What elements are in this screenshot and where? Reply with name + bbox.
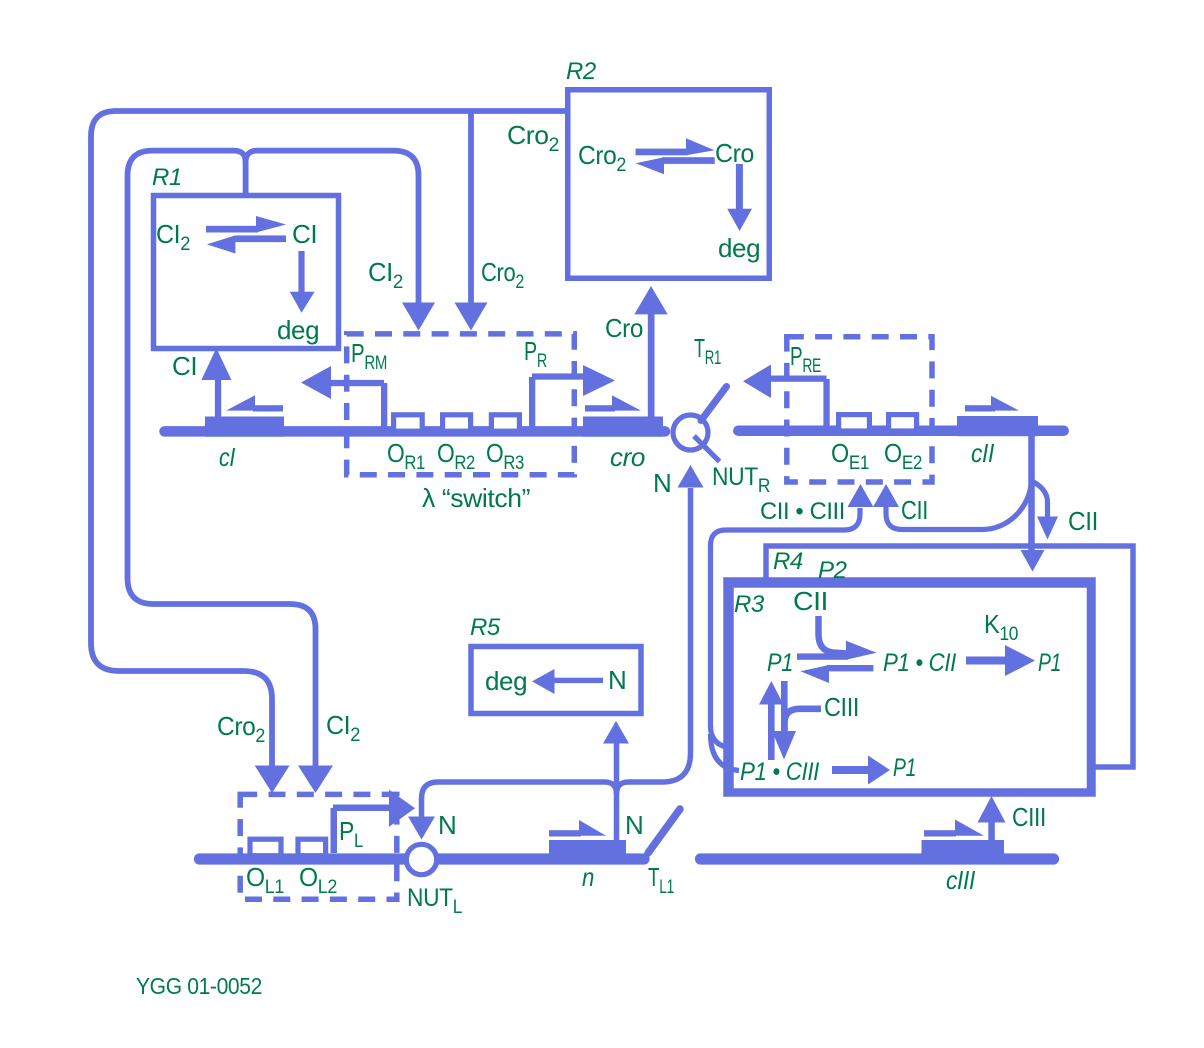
N transcript vertical from gene n up to R5 <box>614 743 620 847</box>
svg-text:NUTR: NUTR <box>712 463 770 497</box>
svg-text:Cro2: Cro2 <box>481 257 524 293</box>
svg-text:CIII: CIII <box>824 692 859 722</box>
svg-text:CI2: CI2 <box>326 710 360 746</box>
svg-text:Cro2: Cro2 <box>507 120 559 156</box>
transcription half-arrow on cI (leftward) <box>226 395 283 411</box>
box P2 <box>726 580 1093 794</box>
svg-text:OE2: OE2 <box>884 438 922 474</box>
wire CI2 right branch down to lambda switch box <box>246 151 419 305</box>
wire CII-CIII long path to OE1 up arrow <box>711 508 861 728</box>
box R3 <box>731 585 1090 791</box>
operator OL1 <box>250 839 281 856</box>
dashed box OL <box>240 794 397 899</box>
svg-text:P1: P1 <box>767 649 793 677</box>
svg-text:P1 • CII: P1 • CII <box>883 649 956 677</box>
svg-text:CI: CI <box>172 351 197 381</box>
svg-text:P1: P1 <box>893 754 916 782</box>
wire CII S-curve to OE2 up arrow <box>886 478 1032 530</box>
arrow K10 degradation <box>966 645 1035 676</box>
DNA line cII <box>738 425 1063 436</box>
svg-text:P1 • CIII: P1 • CIII <box>740 758 819 786</box>
wire CII output from gene cII <box>1028 436 1035 481</box>
svg-text:Cro: Cro <box>605 313 643 343</box>
wire CII input curve in R3 <box>819 616 848 654</box>
svg-text:deg: deg <box>485 666 527 696</box>
gene cro <box>583 417 663 437</box>
svg-text:CII: CII <box>1068 506 1098 536</box>
arrow N deg in R5 <box>532 669 603 694</box>
arrowhead Cro2 at lambda switch <box>455 303 488 331</box>
svg-text:PRE: PRE <box>790 341 821 377</box>
promoter arrow PL (bent, pointing right) <box>331 790 416 853</box>
svg-text:CII: CII <box>901 495 928 525</box>
arrow CI deg in R1 <box>290 251 315 313</box>
box R1 <box>154 196 339 349</box>
arrow CII onto P2 top <box>1028 481 1035 551</box>
arrow Cro from gene cro up to R2 <box>634 286 667 418</box>
svg-text:TR1: TR1 <box>694 333 721 369</box>
svg-text:PR: PR <box>524 336 547 372</box>
equilibrium arrows R3 vertical <box>759 681 796 760</box>
svg-text:PL: PL <box>339 816 363 852</box>
operator OR3 <box>491 415 519 431</box>
dashed box PRE <box>787 337 932 482</box>
svg-text:R4: R4 <box>773 548 803 575</box>
transcription half-arrow on cro (rightward) <box>585 395 641 411</box>
svg-text:N: N <box>653 468 671 498</box>
arrowhead CII at OE2 <box>873 484 899 507</box>
DNA line cI-cro <box>165 426 666 437</box>
terminator TR1 slash <box>701 387 727 421</box>
operator OR2 <box>443 415 471 431</box>
svg-text:OL2: OL2 <box>299 862 337 898</box>
NUT_L circle <box>406 844 436 874</box>
gene n <box>549 840 626 864</box>
arrow P1.CIII to P1 <box>832 756 890 785</box>
svg-text:R5: R5 <box>470 614 501 641</box>
wire Cro2 branch down to lambda switch box <box>468 111 474 305</box>
box R4 <box>766 546 1133 767</box>
operator OL2 <box>298 839 326 856</box>
wire CII-CIII branch arc into P2 box edge <box>711 726 729 748</box>
svg-text:deg: deg <box>718 233 760 263</box>
arrowhead Cro2 at OL box <box>255 766 290 794</box>
NUT_R circle <box>673 415 708 450</box>
box R2 <box>568 90 770 279</box>
svg-text:deg: deg <box>277 315 319 345</box>
svg-text:CII: CII <box>793 586 828 616</box>
operator OE2 <box>889 415 917 431</box>
operator OE1 <box>839 415 870 431</box>
svg-text:R1: R1 <box>152 164 182 191</box>
svg-text:CII • CIII: CII • CIII <box>760 498 845 525</box>
gene cII <box>957 416 1038 436</box>
promoter arrow PRE (bent, pointing left) <box>743 365 830 429</box>
arrow Cro deg in R2 <box>727 164 752 231</box>
svg-text:Cro2: Cro2 <box>217 711 265 747</box>
wire Cro2 feedback loop from R2 left edge down to OL dashed box <box>91 111 565 768</box>
svg-text:cIII: cIII <box>946 865 975 895</box>
svg-text:OR2: OR2 <box>437 438 475 474</box>
svg-text:OL1: OL1 <box>246 862 284 898</box>
NUT_R tail slash <box>694 436 720 462</box>
box R5 <box>471 647 641 714</box>
svg-text:TL1: TL1 <box>648 862 674 898</box>
wire CIII input curve in R3 <box>785 709 822 730</box>
arrowhead CI2 at lambda switch <box>402 303 435 331</box>
dashed box lambda switch <box>347 334 575 475</box>
transcription half-arrow on cII (rightward) <box>965 396 1019 412</box>
svg-text:OR1: OR1 <box>387 438 425 474</box>
svg-text:PRM: PRM <box>351 338 387 374</box>
arrow CIII from gene cIII up to R3 <box>978 796 1006 840</box>
svg-text:CI2: CI2 <box>368 257 403 293</box>
svg-text:N: N <box>625 810 643 840</box>
svg-text:OE1: OE1 <box>831 438 869 474</box>
DNA line OL-n <box>200 853 645 864</box>
terminator TL1 slash <box>648 809 680 853</box>
svg-text:n: n <box>582 862 594 892</box>
equilibrium arrows R2 <box>636 138 715 174</box>
operator OR1 <box>394 415 423 431</box>
gene cI <box>205 417 284 437</box>
svg-text:N: N <box>608 665 626 695</box>
arrowhead N at NUT_L <box>408 817 435 840</box>
transcription half-arrow on cIII (rightward) <box>924 820 984 837</box>
svg-text:Cro: Cro <box>715 138 754 168</box>
wire CII-CIII branch arc to P1.CIII <box>711 734 740 771</box>
wire N right branch S-curve up to NUT_R <box>617 488 691 794</box>
promoter arrow PR (bent, pointing right) <box>529 365 615 428</box>
equilibrium arrows R3 horizontal <box>797 641 877 683</box>
svg-text:R2: R2 <box>566 58 596 85</box>
wire N left branch to NUT_L <box>422 782 617 817</box>
svg-text:P1: P1 <box>1038 649 1061 677</box>
svg-text:CI: CI <box>292 219 317 249</box>
svg-text:NUTL: NUTL <box>407 884 462 918</box>
DNA line cIII <box>701 853 1054 864</box>
svg-text:λ “switch”: λ “switch” <box>422 483 530 513</box>
svg-text:YGG 01-0052: YGG 01-0052 <box>136 973 262 999</box>
svg-text:CIII: CIII <box>1012 802 1046 832</box>
svg-text:cII: cII <box>971 438 994 468</box>
transcription half-arrow on n (rightward) <box>549 820 606 837</box>
svg-text:cI: cI <box>219 442 235 472</box>
arrow CII onto R4 top <box>1032 481 1048 518</box>
svg-text:cro: cro <box>610 442 645 472</box>
svg-text:P2: P2 <box>818 557 847 584</box>
svg-text:R3: R3 <box>734 591 765 618</box>
equilibrium arrows R1 <box>206 216 286 254</box>
arrowhead N into R5 <box>603 721 629 744</box>
arrowhead CI2 at OL box <box>298 766 333 794</box>
wire CI2 loop from R1 top, left branch down to OL dashed box <box>128 151 316 768</box>
promoter arrow PRM (bent, pointing left) <box>301 366 387 428</box>
arrow CI from gene cI up to R1 <box>201 348 231 420</box>
svg-text:OR3: OR3 <box>486 438 524 474</box>
svg-text:N: N <box>438 810 456 840</box>
arrowhead N at NUT_R <box>678 465 704 488</box>
arrowhead CII-CIII at OE1 <box>848 484 874 507</box>
gene cIII <box>922 840 1005 864</box>
